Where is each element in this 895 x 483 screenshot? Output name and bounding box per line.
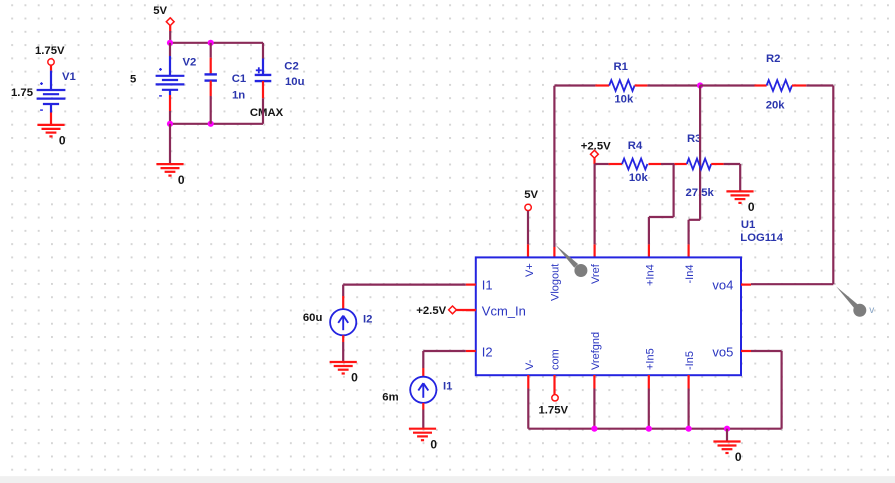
svg-text:CMAX: CMAX xyxy=(250,107,284,119)
wire xyxy=(169,90,171,124)
svg-text:0: 0 xyxy=(178,173,185,187)
wire xyxy=(50,65,52,90)
wire bus xyxy=(528,428,781,430)
wire xyxy=(593,164,595,257)
wire xyxy=(711,164,740,191)
svg-text:1n: 1n xyxy=(232,89,245,101)
svg-text:1.75: 1.75 xyxy=(11,87,33,99)
junction xyxy=(208,40,214,46)
label 0 xyxy=(735,450,742,464)
junction xyxy=(591,426,597,432)
capacitor C2 xyxy=(255,67,272,81)
wire xyxy=(593,375,595,429)
label I2 xyxy=(363,314,372,326)
net label 5V xyxy=(153,5,167,17)
pin label V- xyxy=(524,359,536,370)
value 5 xyxy=(130,74,136,86)
pin Vcm_In xyxy=(466,309,476,311)
value CMAX xyxy=(250,107,284,119)
svg-text:V2: V2 xyxy=(183,57,197,69)
voltage source V1 xyxy=(37,82,66,110)
label V1 xyxy=(62,71,76,83)
svg-text:-In4: -In4 xyxy=(684,265,696,284)
label I1 xyxy=(443,381,452,393)
value 6m xyxy=(382,392,398,404)
pin label I2 xyxy=(482,345,493,360)
svg-text:6m: 6m xyxy=(382,392,398,404)
wire xyxy=(169,124,171,164)
svg-text:I2: I2 xyxy=(482,345,493,360)
svg-text:5: 5 xyxy=(130,74,136,86)
ground xyxy=(330,362,357,374)
svg-text:+In5: +In5 xyxy=(644,348,656,370)
label 0 xyxy=(430,437,437,451)
pin com wire xyxy=(553,375,555,394)
terminal node 1.75V xyxy=(48,59,54,65)
junction xyxy=(686,426,692,432)
terminal node 1.75V xyxy=(552,395,558,401)
wire xyxy=(456,309,476,311)
status bar xyxy=(0,476,895,483)
value 10k xyxy=(629,172,649,184)
wire xyxy=(687,375,689,429)
wire xyxy=(649,163,687,165)
value 1n xyxy=(232,89,245,101)
pin label +In5 xyxy=(644,348,656,370)
pin vo5 xyxy=(741,350,751,352)
net label 1.75V (V1 terminal) xyxy=(35,45,65,57)
svg-text:vo4: vo4 xyxy=(712,277,733,292)
label U1 xyxy=(741,219,755,231)
pin label com xyxy=(550,349,562,370)
pin label Vref xyxy=(590,263,602,284)
pin label I1 xyxy=(482,278,493,293)
net label 5V xyxy=(524,189,538,201)
ground xyxy=(713,442,740,454)
svg-text:R2: R2 xyxy=(766,53,780,65)
wire bottom rail xyxy=(170,123,263,125)
svg-text:0: 0 xyxy=(351,371,358,385)
pin label Vcm_In xyxy=(482,303,526,318)
label V2 xyxy=(183,57,197,69)
junction xyxy=(208,121,214,127)
svg-text:V-: V- xyxy=(524,359,536,370)
value 10k xyxy=(614,94,634,106)
svg-text:V1: V1 xyxy=(62,71,76,83)
pin label V+ xyxy=(524,263,536,277)
svg-text:vo5: vo5 xyxy=(712,345,733,360)
pin label -In4 xyxy=(684,265,696,284)
wire xyxy=(553,86,555,258)
wire xyxy=(726,429,728,442)
pin label Vrefgnd xyxy=(590,332,602,370)
svg-text:Vcm_In: Vcm_In xyxy=(482,303,526,318)
svg-text:1.75V: 1.75V xyxy=(539,405,569,417)
wire xyxy=(169,26,171,43)
net label +2.5V xyxy=(416,305,446,317)
svg-text:Vref: Vref xyxy=(590,263,602,284)
label 0 xyxy=(351,371,358,385)
svg-text:U1: U1 xyxy=(741,219,755,231)
wire xyxy=(342,335,344,362)
probe Vlogout xyxy=(555,245,587,277)
ground xyxy=(156,164,183,176)
svg-text:10k: 10k xyxy=(629,172,649,184)
svg-text:Vlogout: Vlogout xyxy=(550,264,562,301)
wire xyxy=(210,43,212,75)
svg-text:60u: 60u xyxy=(303,312,323,324)
terminal node 5V xyxy=(166,18,174,26)
op-amp U1 LOG114 body xyxy=(476,257,741,375)
terminal node +2.5V xyxy=(591,150,599,158)
ground xyxy=(726,191,753,203)
wire xyxy=(422,351,424,377)
wire xyxy=(751,283,833,285)
svg-text:I1: I1 xyxy=(443,381,452,393)
wire xyxy=(422,403,424,429)
label R4 xyxy=(628,140,643,152)
svg-text:V+: V+ xyxy=(524,263,536,277)
resistor R2 xyxy=(767,80,792,91)
pin label Vlogout xyxy=(550,264,562,301)
wire xyxy=(648,375,650,429)
svg-text:5V: 5V xyxy=(524,189,538,201)
svg-text:0: 0 xyxy=(748,200,755,214)
wire xyxy=(342,285,344,310)
terminal node +2.5V xyxy=(449,306,457,314)
net label +2.5V xyxy=(581,141,611,153)
wire top rail xyxy=(170,42,263,44)
probe label v xyxy=(869,305,874,316)
label R3 xyxy=(687,133,701,145)
ground xyxy=(409,429,436,441)
svg-text:+2.5V: +2.5V xyxy=(416,305,446,317)
svg-text:v: v xyxy=(869,305,874,316)
value 1.75 xyxy=(11,87,33,99)
resistor R1 xyxy=(609,80,634,91)
junction node xyxy=(697,82,703,88)
svg-text:0: 0 xyxy=(59,134,66,148)
value 20k xyxy=(766,99,786,111)
current source I1 xyxy=(410,377,436,403)
wire xyxy=(423,350,466,352)
svg-text:+2.5V: +2.5V xyxy=(581,141,611,153)
label C1 xyxy=(232,73,246,85)
label 0 xyxy=(748,200,755,214)
resistor R4 xyxy=(622,159,647,170)
wire xyxy=(262,43,264,75)
wire xyxy=(262,81,264,124)
probe v (output) xyxy=(836,287,866,317)
pin label +In4 xyxy=(644,264,656,286)
wire xyxy=(169,43,171,76)
svg-text:C2: C2 xyxy=(284,60,298,72)
svg-text:10u: 10u xyxy=(285,76,305,88)
wire xyxy=(343,284,466,286)
junction xyxy=(167,121,173,127)
wire xyxy=(50,104,52,125)
value 10u xyxy=(285,76,305,88)
net label 1.75V xyxy=(539,405,569,417)
svg-text:0: 0 xyxy=(430,437,437,451)
wire xyxy=(751,351,782,429)
wire xyxy=(595,163,622,165)
current source I2 xyxy=(330,309,356,335)
wire xyxy=(210,81,212,124)
svg-text:Vrefgnd: Vrefgnd xyxy=(590,332,602,370)
svg-text:+In4: +In4 xyxy=(644,264,656,286)
wire xyxy=(527,375,529,429)
label R2 xyxy=(766,53,780,65)
wire xyxy=(635,84,701,86)
terminal node 5V xyxy=(525,204,531,210)
wire xyxy=(832,86,834,285)
label R1 xyxy=(614,61,628,73)
pin label vo5 xyxy=(712,345,733,360)
svg-text:I1: I1 xyxy=(482,278,493,293)
value 27.5k xyxy=(686,187,715,199)
value 60u xyxy=(303,312,323,324)
pin I2 xyxy=(466,350,476,352)
svg-text:5V: 5V xyxy=(153,5,167,17)
capacitor C1 xyxy=(205,74,217,80)
svg-text:LOG114: LOG114 xyxy=(740,232,783,244)
junction xyxy=(724,426,730,432)
svg-text:C1: C1 xyxy=(232,73,246,85)
svg-text:0: 0 xyxy=(735,450,742,464)
pin label -In5 xyxy=(684,351,696,370)
pin I1 xyxy=(466,284,476,286)
label 0 xyxy=(178,173,185,187)
svg-text:20k: 20k xyxy=(766,99,786,111)
svg-text:R4: R4 xyxy=(628,140,643,152)
wire xyxy=(527,211,529,258)
label LOG114 xyxy=(740,232,783,244)
pin label vo4 xyxy=(712,277,733,292)
wire xyxy=(593,158,595,164)
wire xyxy=(649,164,674,257)
label C2 xyxy=(284,60,298,72)
junction xyxy=(646,426,652,432)
svg-text:1.75V: 1.75V xyxy=(35,45,65,57)
pin vo4 xyxy=(741,284,751,286)
ground xyxy=(37,125,64,136)
wire xyxy=(792,84,833,86)
svg-text:com: com xyxy=(550,349,562,370)
wire xyxy=(554,84,609,86)
voltage source V2 xyxy=(156,68,185,96)
resistor R3 xyxy=(687,159,711,170)
wire xyxy=(700,84,767,86)
junction xyxy=(167,40,173,46)
svg-text:10k: 10k xyxy=(614,94,634,106)
svg-text:-In5: -In5 xyxy=(684,351,696,370)
label 0 xyxy=(59,134,66,148)
wire xyxy=(689,86,701,258)
svg-text:R1: R1 xyxy=(614,61,628,73)
svg-text:I2: I2 xyxy=(363,314,372,326)
